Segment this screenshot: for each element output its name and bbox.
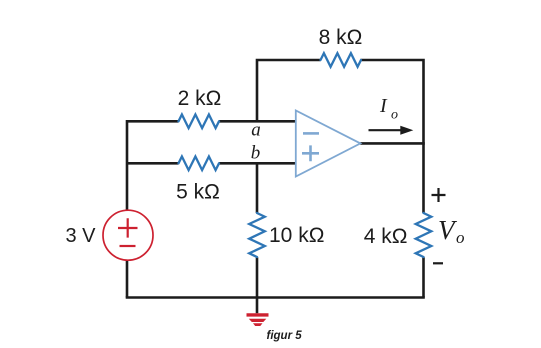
svg-text:8 kΩ: 8 kΩ [319,26,363,49]
svg-text:b: b [251,143,261,164]
svg-text:2 kΩ: 2 kΩ [178,87,222,110]
svg-text:4 kΩ: 4 kΩ [364,225,408,248]
svg-text:10 kΩ: 10 kΩ [269,224,324,247]
svg-text:figur 5: figur 5 [267,330,303,342]
svg-text:I: I [379,95,388,117]
svg-text:V: V [438,215,458,245]
svg-text:a: a [251,120,261,141]
svg-text:o: o [456,228,465,247]
svg-text:3 V: 3 V [65,225,96,247]
svg-text:5 kΩ: 5 kΩ [176,181,220,204]
svg-text:o: o [391,108,398,123]
